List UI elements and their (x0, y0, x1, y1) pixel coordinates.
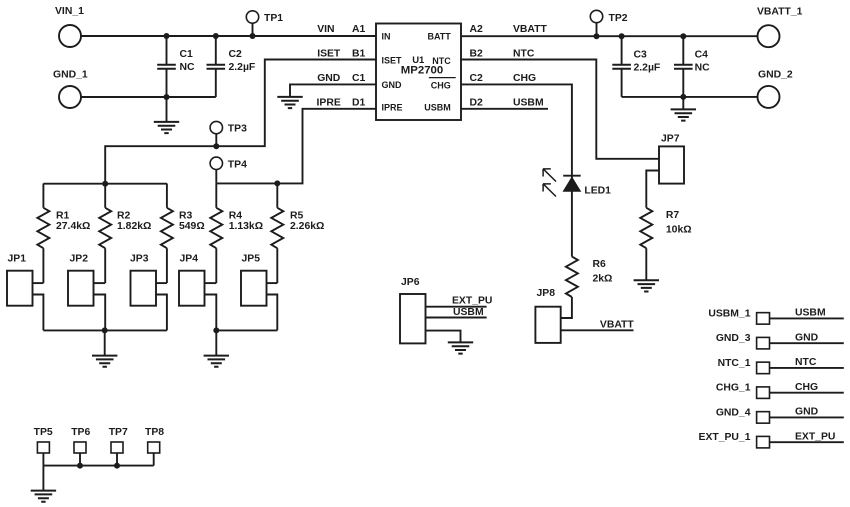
jumper JP1 (7, 271, 33, 306)
wire JP4-JP5 ground bus (216, 329, 277, 331)
svg-text:JP4: JP4 (180, 253, 199, 264)
resistor R5 (276, 184, 278, 208)
ground under JP6 (448, 342, 473, 353)
port GND_1 (59, 86, 81, 108)
jumper JP6 (400, 294, 426, 343)
svg-text:JP7: JP7 (661, 133, 680, 144)
wire JP6 EXT_PU stub (426, 306, 487, 308)
svg-text:549Ω: 549Ω (179, 221, 205, 232)
wire NTC net (461, 60, 659, 159)
svg-text:CHG: CHG (513, 73, 536, 84)
svg-text:C1: C1 (352, 73, 366, 84)
svg-text:B2: B2 (470, 48, 484, 59)
svg-text:VBATT: VBATT (513, 24, 548, 35)
wire GND_1 bus (81, 96, 216, 98)
LED1 arrow 1 (543, 169, 556, 182)
svg-text:D2: D2 (470, 97, 484, 108)
resistor R3 (166, 184, 168, 208)
svg-text:JP1: JP1 (8, 253, 27, 264)
svg-text:VBATT_1: VBATT_1 (757, 7, 803, 18)
svg-text:C1: C1 (180, 49, 194, 60)
svg-text:GND: GND (795, 407, 819, 418)
resistor R6 (566, 257, 578, 297)
svg-text:CHG_1: CHG_1 (716, 383, 751, 394)
ground at U1 GND pin (277, 97, 302, 108)
testpoint TP3 (210, 121, 222, 133)
svg-text:IPRE: IPRE (382, 103, 403, 113)
svg-text:R1: R1 (56, 210, 70, 221)
op-amp U1 MP2700 body (376, 24, 461, 121)
testpoint TP7 (111, 442, 123, 453)
resistor R7 (640, 208, 652, 248)
wire JP7 to R7 (646, 171, 659, 208)
svg-text:2.2µF: 2.2µF (229, 62, 256, 73)
ground JP1-JP3 (104, 330, 106, 355)
wire JP6 USBM stub (426, 317, 487, 319)
svg-text:C3: C3 (634, 50, 648, 61)
capacitor C3 (621, 36, 623, 97)
junction VIN-TP1 (250, 33, 256, 39)
svg-text:C2: C2 (470, 73, 484, 84)
svg-text:USBM: USBM (424, 103, 451, 113)
capacitor C2 (215, 36, 217, 97)
testpoint TP6 (74, 442, 86, 453)
svg-text:D1: D1 (352, 97, 366, 108)
resistor R4 (215, 184, 217, 208)
jumper JP4 (179, 271, 205, 306)
junction TP3 (213, 143, 219, 149)
svg-text:2kΩ: 2kΩ (593, 274, 613, 285)
svg-text:GND_2: GND_2 (758, 69, 793, 80)
svg-text:27.4kΩ: 27.4kΩ (56, 221, 90, 232)
port VIN_1 (59, 25, 81, 47)
wire IPRE net (216, 109, 376, 184)
wire ISET net (105, 60, 376, 184)
svg-text:TP6: TP6 (71, 427, 90, 438)
svg-text:A1: A1 (352, 24, 366, 35)
svg-text:R5: R5 (290, 210, 304, 221)
svg-text:BATT: BATT (427, 32, 451, 42)
svg-text:CHG: CHG (431, 80, 451, 90)
wire TP ground bus (43, 465, 153, 467)
svg-text:TP4: TP4 (228, 159, 247, 170)
testpoint TP5 (37, 442, 49, 453)
svg-text:EXT_PU_1: EXT_PU_1 (699, 432, 751, 443)
capacitor C4 (682, 36, 684, 97)
wire VBATT bus (461, 35, 758, 37)
jumper JP7 (659, 146, 684, 183)
svg-text:C2: C2 (229, 49, 243, 60)
junction right ground bus (213, 327, 219, 333)
svg-text:GND: GND (317, 73, 341, 84)
junction VBATT-C3 (619, 33, 625, 39)
capacitor C1 (166, 36, 168, 97)
svg-text:2.26kΩ: 2.26kΩ (290, 221, 324, 232)
junction left ground bus (102, 327, 108, 333)
svg-text:USBM: USBM (795, 308, 826, 319)
svg-text:USBM: USBM (453, 307, 484, 318)
port GND_2 (758, 86, 780, 108)
port VBATT_1 (758, 25, 780, 47)
junction VIN-C1 (164, 33, 170, 39)
ground under TP5 (42, 466, 44, 491)
wire GND_2 bus (622, 96, 758, 98)
svg-text:IPRE: IPRE (317, 97, 341, 108)
svg-text:VIN_1: VIN_1 (55, 6, 84, 17)
svg-text:JP2: JP2 (70, 253, 89, 264)
svg-text:GND: GND (382, 80, 403, 90)
LED1 arrow 2 (543, 184, 556, 197)
ground under C1 (166, 97, 168, 122)
svg-text:NTC: NTC (432, 56, 451, 66)
wire JP8 VBATT stub (561, 329, 634, 331)
svg-text:EXT_PU: EXT_PU (795, 431, 835, 442)
svg-text:JP6: JP6 (401, 277, 420, 288)
jumper JP3 (131, 271, 157, 306)
junction GND2-C4 (680, 94, 686, 100)
wire GND pin net (290, 84, 376, 96)
svg-text:B1: B1 (352, 48, 366, 59)
testpoint TP4 (210, 157, 222, 169)
resistor R2 (104, 184, 106, 208)
svg-text:JP5: JP5 (242, 253, 261, 264)
svg-text:TP3: TP3 (228, 124, 247, 135)
svg-text:TP5: TP5 (34, 427, 53, 438)
jumper JP8 (535, 307, 560, 343)
wire R1-R3 top bus (43, 183, 166, 185)
junction VBATT-C4 (680, 33, 686, 39)
svg-text:NTC: NTC (795, 357, 817, 368)
svg-text:R6: R6 (593, 259, 607, 270)
svg-text:VIN: VIN (317, 24, 334, 35)
svg-text:ISET: ISET (382, 55, 403, 65)
junction R2 top (102, 181, 108, 187)
svg-text:2.2µF: 2.2µF (634, 63, 661, 74)
resistor R1 (42, 184, 44, 208)
svg-text:A2: A2 (470, 24, 484, 35)
LED LED1 (563, 175, 581, 177)
jumper JP5 (241, 271, 267, 306)
svg-text:JP3: JP3 (130, 253, 149, 264)
svg-text:TP1: TP1 (264, 13, 283, 24)
svg-text:NC: NC (180, 62, 196, 73)
svg-text:GND_3: GND_3 (716, 333, 751, 344)
wire VIN bus (81, 35, 376, 37)
wire JP6 ground pin (426, 331, 461, 343)
jumper JP2 (68, 271, 94, 306)
svg-text:NC: NC (695, 63, 711, 74)
junction TP7 (114, 463, 120, 469)
svg-text:ISET: ISET (317, 48, 341, 59)
svg-text:1.82kΩ: 1.82kΩ (117, 221, 151, 232)
svg-text:JP8: JP8 (537, 288, 556, 299)
svg-text:MP2700: MP2700 (401, 65, 443, 77)
ground JP4-JP5 (215, 330, 217, 355)
wire JP1-JP3 ground bus (43, 329, 166, 331)
svg-text:EXT_PU: EXT_PU (452, 295, 492, 306)
testpoint TP2 (590, 10, 602, 22)
svg-text:TP8: TP8 (145, 427, 164, 438)
wire USBM stub (461, 108, 548, 110)
ground under C4 (682, 97, 684, 109)
wire CHG net (461, 84, 572, 256)
svg-text:VBATT: VBATT (600, 319, 635, 330)
junction R5 top (274, 180, 280, 186)
junction TP6 (77, 463, 83, 469)
junction VBATT-TP2 (594, 33, 600, 39)
svg-text:10kΩ: 10kΩ (666, 225, 692, 236)
junction GND1-C1 (164, 94, 170, 100)
svg-text:IN: IN (382, 32, 391, 42)
svg-text:NTC: NTC (513, 48, 535, 59)
svg-text:R3: R3 (179, 210, 193, 221)
svg-text:USBM_1: USBM_1 (708, 308, 750, 319)
svg-text:R7: R7 (666, 210, 680, 221)
svg-text:GND: GND (795, 332, 819, 343)
svg-text:NTC_1: NTC_1 (718, 358, 751, 369)
ground under R7 (634, 280, 659, 291)
svg-text:GND_4: GND_4 (716, 407, 751, 418)
svg-text:C4: C4 (695, 50, 709, 61)
svg-text:USBM: USBM (513, 97, 544, 108)
junction VIN-C2 (213, 33, 219, 39)
svg-text:LED1: LED1 (584, 185, 611, 196)
svg-text:R4: R4 (229, 210, 243, 221)
svg-text:1.13kΩ: 1.13kΩ (229, 221, 263, 232)
testpoint TP1 (246, 11, 258, 23)
svg-text:TP2: TP2 (609, 13, 628, 24)
svg-text:CHG: CHG (795, 382, 818, 393)
svg-text:TP7: TP7 (109, 427, 128, 438)
testpoint TP8 (148, 442, 160, 453)
svg-text:R2: R2 (117, 210, 131, 221)
svg-text:GND_1: GND_1 (53, 69, 88, 80)
